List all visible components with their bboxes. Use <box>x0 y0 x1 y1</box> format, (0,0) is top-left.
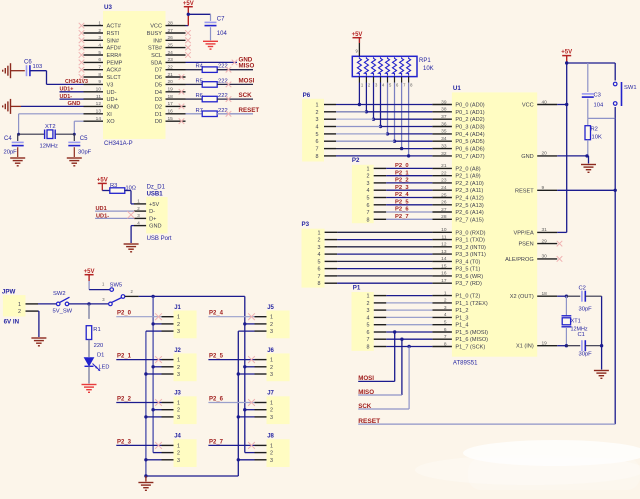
svg-text:23: 23 <box>441 178 447 184</box>
svg-text:8: 8 <box>444 341 447 347</box>
svg-text:P2_3: P2_3 <box>395 185 409 191</box>
svg-text:2: 2 <box>177 365 180 371</box>
svg-text:P2_2: P2_2 <box>395 178 409 184</box>
svg-text:2: 2 <box>177 322 180 328</box>
wire MISO (P1_6 drop) <box>358 338 403 396</box>
ground (C7) <box>203 41 218 49</box>
svg-text:P3_0 (RXD): P3_0 (RXD) <box>455 230 485 236</box>
svg-text:3: 3 <box>367 308 370 314</box>
svg-text:XI: XI <box>107 112 113 118</box>
connector J4 <box>162 434 197 467</box>
svg-text:7: 7 <box>444 334 447 340</box>
svg-text:P0_4 (AD4): P0_4 (AD4) <box>455 132 484 138</box>
wire P2_0 to J1 pin1 <box>116 313 162 320</box>
svg-text:14: 14 <box>441 256 447 262</box>
net label P2_3 <box>117 439 132 445</box>
svg-text:R5: R5 <box>196 78 203 84</box>
svg-text:SLCT: SLCT <box>107 75 122 81</box>
svg-text:104: 104 <box>594 103 604 109</box>
svg-text:2: 2 <box>318 238 321 244</box>
svg-text:P1_6 (MISO): P1_6 (MISO) <box>455 337 488 343</box>
connector JPW 6V input <box>2 289 38 326</box>
svg-text:AT89S51: AT89S51 <box>453 361 478 367</box>
svg-text:SCK: SCK <box>239 92 253 99</box>
svg-text:VPP/EA: VPP/EA <box>513 230 533 236</box>
svg-text:SW1: SW1 <box>624 85 637 91</box>
power +5V (U3 VCC) <box>183 1 194 7</box>
svg-text:1: 1 <box>316 103 319 109</box>
svg-text:222: 222 <box>218 108 228 114</box>
svg-text:28: 28 <box>168 20 174 26</box>
svg-text:D2: D2 <box>155 104 162 110</box>
wire P2_7 to J8 pin1 <box>208 442 255 449</box>
svg-text:P2_5 (A13): P2_5 (A13) <box>455 203 483 209</box>
net label SCK <box>239 92 253 99</box>
resistor R7 222 <box>186 108 254 117</box>
svg-text:P2_6: P2_6 <box>209 397 224 403</box>
svg-text:UD1-: UD1- <box>60 94 73 100</box>
svg-text:P1: P1 <box>353 285 361 292</box>
svg-text:R4: R4 <box>196 64 204 70</box>
svg-text:7: 7 <box>318 274 321 280</box>
net label UD1- (USB D+) <box>96 213 109 219</box>
svg-text:1: 1 <box>177 443 180 449</box>
svg-text:27: 27 <box>441 207 447 213</box>
connector J6 <box>255 348 290 381</box>
svg-text:BUSY: BUSY <box>147 31 163 37</box>
wire power rail (SW5 out) <box>125 295 245 298</box>
net label P2_5 (P2 header) <box>395 199 409 205</box>
svg-text:6: 6 <box>367 203 370 209</box>
svg-text:8: 8 <box>367 217 370 223</box>
ground (U1 GND) <box>581 165 596 173</box>
connector P2 <box>352 157 386 224</box>
svg-text:3: 3 <box>177 458 180 464</box>
svg-text:20: 20 <box>542 151 548 157</box>
svg-text:X1 (IN): X1 (IN) <box>516 344 534 350</box>
svg-text:D1: D1 <box>97 353 104 359</box>
crystal XT1 12MHz <box>562 296 588 347</box>
svg-text:P0_1 (AD1): P0_1 (AD1) <box>455 110 484 116</box>
svg-text:SCL: SCL <box>151 53 162 59</box>
wire bus V2 J1-J4 pin3 to ground <box>144 331 161 478</box>
svg-text:UD-: UD- <box>107 90 117 96</box>
svg-text:GND: GND <box>149 224 161 230</box>
svg-text:SDA: SDA <box>150 60 162 66</box>
wire U1 X2 pin 18 junction <box>557 295 580 298</box>
svg-text:21: 21 <box>441 163 447 169</box>
svg-text:39: 39 <box>441 99 447 105</box>
capacitor C3 104 <box>582 63 604 118</box>
net label P2_3 (P2 header) <box>395 185 409 191</box>
wires P3 to U1 port P3 <box>337 232 432 283</box>
net label P2_4 (P2 header) <box>395 192 409 198</box>
wire +5V to RP1 pin 9 <box>358 38 360 57</box>
svg-text:6: 6 <box>444 327 447 333</box>
wire RESET (bottom) <box>358 423 615 425</box>
svg-text:GND: GND <box>107 104 119 110</box>
wire USB1 GND to ground <box>131 226 134 243</box>
svg-text:P2_1: P2_1 <box>395 170 409 176</box>
svg-text:SIN#: SIN# <box>107 38 120 44</box>
wire P2_3 to J4 pin1 <box>116 442 162 449</box>
svg-text:R7: R7 <box>196 108 203 114</box>
svg-text:28: 28 <box>441 214 447 220</box>
switch SW2 5V_SW <box>53 291 73 315</box>
power +5V (U1 VCC) <box>561 50 572 56</box>
svg-text:D6: D6 <box>155 75 162 81</box>
svg-text:1: 1 <box>270 401 273 407</box>
svg-text:22: 22 <box>168 65 174 71</box>
svg-text:AFD#: AFD# <box>107 46 122 52</box>
ground (LED D1) <box>82 385 97 393</box>
svg-text:ACK#: ACK# <box>107 68 123 74</box>
svg-text:XT1: XT1 <box>571 319 581 325</box>
svg-text:D0: D0 <box>155 119 162 125</box>
ground (C6, left) <box>3 63 25 78</box>
svg-text:CH341V3: CH341V3 <box>65 79 88 85</box>
net label GND (U3 pin 12) <box>68 101 81 107</box>
svg-text:5: 5 <box>316 132 319 138</box>
svg-text:104: 104 <box>217 31 228 37</box>
net label P2_0 (P2 header) <box>395 163 409 169</box>
svg-text:P2_0 (A8): P2_0 (A8) <box>455 166 480 172</box>
svg-text:LED: LED <box>99 365 110 371</box>
svg-text:1: 1 <box>177 401 180 407</box>
svg-text:J2: J2 <box>174 348 181 354</box>
connector USB1 (USB Port) <box>134 185 172 242</box>
LED D1 <box>85 353 110 384</box>
svg-text:UD1+: UD1+ <box>60 87 74 93</box>
power +5V (RP1) <box>352 32 363 38</box>
svg-text:C5: C5 <box>80 136 88 142</box>
wire C6 to U3 V3 pin 9 <box>30 71 84 85</box>
connector J8 <box>255 434 290 467</box>
svg-text:1: 1 <box>367 166 370 172</box>
svg-text:38: 38 <box>441 107 447 113</box>
svg-text:6: 6 <box>316 139 319 145</box>
svg-text:P1_5 (MOSI): P1_5 (MOSI) <box>455 330 488 336</box>
svg-text:10: 10 <box>441 227 447 233</box>
svg-text:P2_0: P2_0 <box>395 163 409 169</box>
svg-text:11: 11 <box>442 234 447 240</box>
svg-text:GND: GND <box>68 101 81 107</box>
svg-text:8: 8 <box>367 345 370 351</box>
svg-text:P3_3 (INT1): P3_3 (INT1) <box>455 252 486 258</box>
resistor R5 222 <box>186 78 254 87</box>
wire bus VB J5-J8 pin3 to ground <box>237 331 255 476</box>
wire U1 RESET pin 9 to SW1/R2 node <box>557 118 617 424</box>
svg-text:33: 33 <box>441 143 447 149</box>
svg-text:17: 17 <box>168 101 174 107</box>
net label SCK <box>358 403 372 410</box>
svg-text:1: 1 <box>270 358 273 364</box>
svg-text:1: 1 <box>177 358 180 364</box>
wire P2_6 to J7 pin1 <box>208 399 255 406</box>
net label P2_1 <box>117 354 132 360</box>
connector J7 <box>255 391 290 424</box>
svg-text:P0_6 (AD6): P0_6 (AD6) <box>455 147 484 153</box>
svg-text:D-: D- <box>149 209 155 215</box>
svg-text:3: 3 <box>270 458 273 464</box>
net label MOSI <box>358 375 374 382</box>
svg-text:Dz_D1: Dz_D1 <box>147 185 166 191</box>
svg-text:4: 4 <box>367 315 370 321</box>
svg-text:36: 36 <box>441 121 447 127</box>
svg-text:6V IN: 6V IN <box>4 319 20 326</box>
svg-text:11: 11 <box>96 94 101 100</box>
svg-text:8: 8 <box>98 72 101 78</box>
net label P2_0 <box>117 311 132 317</box>
svg-text:3: 3 <box>98 35 101 41</box>
svg-text:IN#: IN# <box>153 38 163 44</box>
svg-text:2: 2 <box>98 28 101 34</box>
svg-text:RESET: RESET <box>515 188 534 194</box>
svg-text:J5: J5 <box>267 305 274 311</box>
svg-text:12MHz: 12MHz <box>40 144 58 150</box>
connector J1 <box>162 305 197 338</box>
svg-text:7: 7 <box>367 337 370 343</box>
net label P2_7 (P2 header) <box>395 214 409 220</box>
capacitor C7 104 <box>205 14 228 40</box>
svg-text:103: 103 <box>33 64 43 70</box>
svg-text:R6: R6 <box>196 93 203 99</box>
svg-text:19: 19 <box>168 87 174 93</box>
svg-text:1: 1 <box>444 290 447 296</box>
svg-text:17: 17 <box>441 278 447 284</box>
svg-text:+5V: +5V <box>97 178 108 184</box>
svg-text:2: 2 <box>270 365 273 371</box>
svg-text:8: 8 <box>318 281 321 287</box>
wire U3 XO pin 14 to crystal <box>73 121 84 136</box>
wire bottom ground run <box>146 476 238 482</box>
svg-text:37: 37 <box>441 114 447 120</box>
svg-text:26: 26 <box>441 200 447 206</box>
svg-text:4: 4 <box>318 252 321 258</box>
wire USB1 D- (UD1+) <box>95 210 134 212</box>
svg-text:P0_0 (AD0): P0_0 (AD0) <box>455 103 484 109</box>
svg-text:3: 3 <box>177 329 180 335</box>
svg-text:20pF: 20pF <box>4 149 18 155</box>
svg-text:P0_2 (AD2): P0_2 (AD2) <box>455 117 484 123</box>
svg-text:P2_5: P2_5 <box>395 199 409 205</box>
svg-text:P3_6 (WR): P3_6 (WR) <box>455 274 483 280</box>
svg-text:R3: R3 <box>110 183 117 189</box>
svg-text:14: 14 <box>96 116 102 122</box>
power +5V (SW5) <box>84 269 95 275</box>
svg-text:C7: C7 <box>217 16 225 22</box>
ground (J connectors) <box>138 483 153 491</box>
capacitor C2 30pF <box>579 286 602 313</box>
svg-text:UD+: UD+ <box>107 97 118 103</box>
svg-text:40: 40 <box>542 99 548 105</box>
svg-text:5: 5 <box>98 50 101 56</box>
wire JPW pin 2 to ground <box>37 311 40 337</box>
svg-text:VCC: VCC <box>522 103 534 109</box>
net label MOSI <box>239 77 255 84</box>
svg-text:13: 13 <box>96 109 102 115</box>
svg-text:3: 3 <box>177 372 180 378</box>
svg-text:222: 222 <box>218 78 228 84</box>
svg-text:P0_3 (AD3): P0_3 (AD3) <box>455 125 484 131</box>
wires P1 to U1 port P1 <box>386 296 432 347</box>
ground (U3 GND, left) <box>3 99 21 114</box>
svg-text:P3_5 (T1): P3_5 (T1) <box>455 267 480 273</box>
svg-text:1: 1 <box>270 443 273 449</box>
svg-text:P2_2: P2_2 <box>117 397 132 403</box>
svg-text:P3_1 (TXD): P3_1 (TXD) <box>455 238 485 244</box>
svg-text:C6: C6 <box>24 60 32 66</box>
svg-text:2: 2 <box>270 408 273 414</box>
svg-text:P1_4: P1_4 <box>455 323 468 329</box>
svg-text:C3: C3 <box>594 93 601 99</box>
svg-text:18: 18 <box>168 94 174 100</box>
svg-text:RP1: RP1 <box>419 58 431 64</box>
svg-text:6: 6 <box>367 330 370 336</box>
svg-text:P3_2 (INT0): P3_2 (INT0) <box>455 245 486 251</box>
net label P2_1 (P2 header) <box>395 170 409 176</box>
svg-text:P2_0: P2_0 <box>117 311 132 317</box>
svg-text:2: 2 <box>177 408 180 414</box>
resistor R6 222 <box>186 93 254 102</box>
svg-text:XO: XO <box>107 119 116 125</box>
svg-text:J6: J6 <box>267 348 274 354</box>
svg-text:1: 1 <box>98 20 101 26</box>
capacitor C4 20pF <box>4 134 24 157</box>
svg-text:4: 4 <box>98 42 101 48</box>
wire bus VA +5V to J5-J8 pin2 <box>243 296 254 452</box>
svg-text:D7: D7 <box>155 68 162 74</box>
net label P2_5 <box>209 354 224 360</box>
net label GND (SDA row) <box>239 56 253 63</box>
svg-text:5: 5 <box>444 320 447 326</box>
svg-text:32: 32 <box>441 151 447 157</box>
svg-text:J8: J8 <box>267 434 274 440</box>
svg-text:2: 2 <box>270 451 273 457</box>
svg-text:P2_6 (A14): P2_6 (A14) <box>455 210 483 216</box>
svg-text:20: 20 <box>168 79 174 85</box>
svg-text:U1: U1 <box>453 85 461 92</box>
svg-text:J3: J3 <box>174 391 181 397</box>
svg-text:222: 222 <box>218 93 228 99</box>
svg-text:25: 25 <box>441 192 447 198</box>
svg-text:16: 16 <box>441 271 447 277</box>
svg-text:31: 31 <box>542 227 548 233</box>
svg-text:9: 9 <box>542 185 545 191</box>
svg-text:P2_7: P2_7 <box>209 439 224 445</box>
svg-text:PSEN: PSEN <box>518 242 533 248</box>
svg-text:18: 18 <box>542 291 548 297</box>
svg-text:3: 3 <box>318 245 321 251</box>
svg-text:P1_2: P1_2 <box>455 308 468 314</box>
resistor R1 220 <box>86 304 103 357</box>
svg-text:SW5: SW5 <box>110 282 123 288</box>
net label P2_6 (P2 header) <box>395 207 409 213</box>
svg-text:RESET: RESET <box>358 418 380 425</box>
svg-text:ERR#: ERR# <box>107 53 123 59</box>
svg-text:10K: 10K <box>592 135 602 141</box>
connector P3 <box>302 221 338 288</box>
svg-text:PEMP: PEMP <box>107 60 123 66</box>
svg-text:P3: P3 <box>302 221 310 228</box>
net label P2_2 (P2 header) <box>395 178 409 184</box>
svg-text:2: 2 <box>177 451 180 457</box>
svg-text:24: 24 <box>168 50 174 56</box>
svg-text:J1: J1 <box>174 305 181 311</box>
svg-text:P1_3: P1_3 <box>455 315 468 321</box>
connector P6 <box>302 92 336 162</box>
capacitor C1 30pF <box>578 332 602 358</box>
wire SCK (P1_7 drop) <box>358 345 411 409</box>
wire JPW pin 1 to SW2 <box>38 303 56 305</box>
svg-text:MISO: MISO <box>239 63 255 70</box>
svg-text:2: 2 <box>270 322 273 328</box>
svg-text:D3: D3 <box>155 97 162 103</box>
wire bus V1 +5V to J1-J4 pin2 <box>151 296 161 452</box>
ground (C5) <box>67 158 82 166</box>
wire R3 to USB1 +5V pin <box>124 191 134 204</box>
svg-text:220: 220 <box>94 343 104 349</box>
wires P6 to U1 port P0 <box>336 105 432 156</box>
svg-text:JPW: JPW <box>2 289 16 296</box>
svg-text:9: 9 <box>98 79 101 85</box>
svg-text:15: 15 <box>441 263 447 269</box>
svg-text:P2: P2 <box>352 157 360 164</box>
wire SW2 to SW5 (LED tap junction) <box>69 302 109 305</box>
svg-text:VCC: VCC <box>150 24 162 30</box>
svg-text:D+: D+ <box>149 216 156 222</box>
svg-text:2: 2 <box>367 174 370 180</box>
svg-text:3: 3 <box>444 305 447 311</box>
svg-text:P1_1 (T2EX): P1_1 (T2EX) <box>455 301 487 307</box>
svg-text:24: 24 <box>441 185 447 191</box>
svg-text:P2_5: P2_5 <box>209 354 224 360</box>
MCU U1 AT89S51 <box>432 85 562 366</box>
svg-text:3: 3 <box>270 372 273 378</box>
svg-text:3: 3 <box>177 415 180 421</box>
net label UD1+ <box>60 87 74 93</box>
switch SW1 (reset button) <box>613 82 636 118</box>
svg-text:30pF: 30pF <box>579 307 593 313</box>
svg-text:R1: R1 <box>93 327 100 333</box>
wire P2_5 to J6 pin1 <box>208 356 255 363</box>
svg-text:21: 21 <box>168 72 174 78</box>
svg-text:4: 4 <box>316 125 319 131</box>
wire P2_1 to J2 pin1 <box>116 356 162 363</box>
svg-text:22: 22 <box>441 171 447 177</box>
svg-text:1: 1 <box>318 230 321 236</box>
svg-text:P2_7 (A15): P2_7 (A15) <box>455 217 483 223</box>
net label P2_4 <box>209 311 224 317</box>
ground (C4) <box>10 158 25 166</box>
svg-text:STB#: STB# <box>148 46 163 52</box>
svg-text:12: 12 <box>441 242 447 248</box>
svg-text:1: 1 <box>18 302 21 308</box>
IC U3 CH341A USB interface <box>79 4 191 147</box>
wire ground to U3 GND pin 12 <box>21 105 84 107</box>
svg-text:2: 2 <box>444 298 447 304</box>
wire U1 X1 pin 19 row <box>557 345 580 347</box>
svg-text:5V_SW: 5V_SW <box>53 309 73 315</box>
svg-text:RSTI: RSTI <box>107 31 120 37</box>
ground (crystal) <box>594 371 609 379</box>
resistor R2 10K <box>585 126 602 158</box>
resistor R4 222 <box>186 64 254 73</box>
svg-text:C1: C1 <box>578 332 585 338</box>
resistor network RP1 10K <box>352 49 433 88</box>
svg-text:USB1: USB1 <box>147 192 164 198</box>
svg-text:4: 4 <box>367 188 370 194</box>
